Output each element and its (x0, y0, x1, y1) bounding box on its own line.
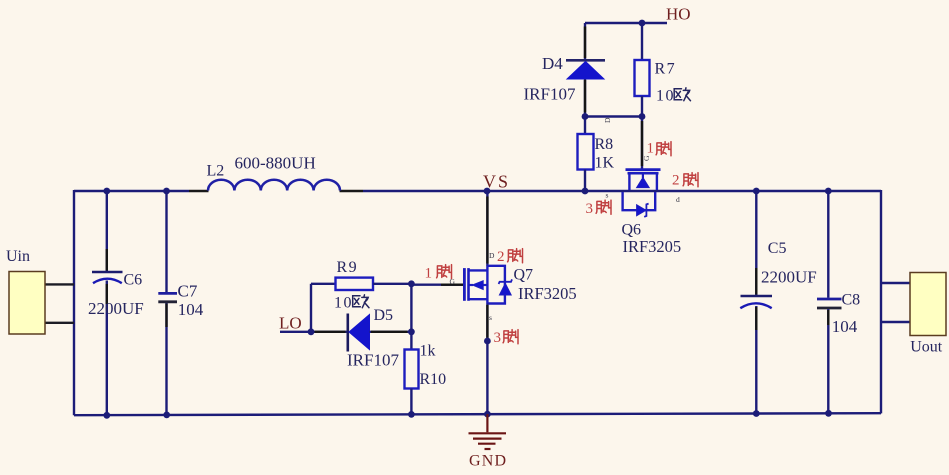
wire bottom rail (74, 413, 881, 415)
svg-text:IRF3205: IRF3205 (623, 237, 682, 256)
junction dots right rail (753, 188, 760, 195)
transistor Q7 (464, 266, 512, 304)
svg-text:Q6: Q6 (622, 222, 642, 239)
svg-text:IRF107: IRF107 (524, 85, 576, 104)
junction dot top rail at C7 (163, 188, 170, 195)
capacitor C8 (817, 190, 842, 414)
junction dot HO wire at R7 (639, 20, 646, 27)
svg-text:G: G (450, 277, 456, 286)
svg-text:2: 2 (672, 173, 680, 189)
svg-text:C7: C7 (178, 281, 198, 300)
diode D4 (566, 60, 605, 116)
svg-text:R9: R9 (337, 259, 359, 276)
wire left vertical (Uin branch) (73, 190, 75, 415)
svg-text:600-880UH: 600-880UH (235, 154, 316, 173)
svg-text:LO: LO (279, 314, 302, 333)
svg-text:Q7: Q7 (514, 266, 534, 283)
svg-text:1k: 1k (420, 343, 436, 360)
wire D4/R7 bottom link (585, 115, 642, 117)
transistor Q6 (623, 170, 661, 217)
svg-text:1K: 1K (595, 155, 615, 172)
wire Uout lower lead (881, 321, 910, 323)
wire top rail right segment (340, 190, 364, 192)
wire Uout upper lead (881, 282, 910, 284)
junction dot bottom rail at C6 (103, 412, 110, 419)
label pin 3脚 (Q6) (586, 200, 612, 217)
label pin 2脚 (Q6) (672, 173, 698, 189)
resistor R8 (578, 117, 594, 192)
junction dot Q7 source pin (484, 338, 491, 345)
svg-text:L2: L2 (207, 163, 225, 180)
wire HO top (585, 22, 667, 24)
junction dots bottom rail right (753, 410, 760, 417)
svg-text:R8: R8 (595, 136, 614, 153)
svg-text:104: 104 (832, 317, 858, 336)
capacitor C7 (158, 190, 177, 415)
svg-text:IRF107: IRF107 (347, 350, 399, 369)
wire Q7 gate lead (411, 284, 463, 286)
junction dot bottom rail at C7 (163, 412, 170, 419)
junction dot gate node (408, 280, 415, 287)
label pin 1脚 (Q7) (425, 265, 452, 282)
svg-text:2200UF: 2200UF (88, 299, 144, 318)
junction dot R10 bottom (408, 411, 415, 418)
capacitor C6 (92, 190, 123, 415)
connector Uin (port box) (9, 272, 45, 335)
svg-text:10: 10 (334, 295, 353, 312)
wire right vertical (Uout branch) (880, 190, 882, 413)
wire Q6 gate lead (641, 117, 643, 169)
svg-text:IRF3205: IRF3205 (518, 284, 577, 303)
resistor R7 (635, 23, 650, 117)
svg-text:Uout: Uout (910, 339, 943, 356)
label pin 3脚 (Q7) (494, 330, 519, 346)
junction dot at D4 bottom (582, 113, 589, 120)
value 10欧 (R7) (656, 88, 691, 105)
wire Uin lower lead (45, 322, 74, 324)
wire top rail left segment (74, 190, 189, 192)
wire gate node vertical (410, 284, 412, 350)
svg-text:Uin: Uin (6, 248, 30, 265)
svg-text:2: 2 (497, 249, 505, 265)
svg-text:D4: D4 (542, 54, 563, 73)
wire D4 top lead (584, 23, 586, 59)
junction dot top rail at C6 (103, 188, 110, 195)
svg-text:HO: HO (666, 5, 691, 24)
junction dot GND node (484, 411, 491, 418)
label pin 2脚 (Q7) (497, 249, 523, 265)
svg-text:3: 3 (586, 201, 594, 217)
junction dot R8 bottom on rail (582, 188, 589, 195)
wire LO lead (280, 331, 348, 333)
resistor R9 (311, 278, 411, 290)
svg-text:3: 3 (494, 330, 502, 346)
svg-text:d: d (676, 195, 680, 204)
resistor R10 (405, 350, 419, 415)
svg-text:s: s (489, 313, 492, 322)
junction dot at R7 bottom (639, 113, 646, 120)
svg-text:10: 10 (656, 88, 675, 105)
svg-text:2200UF: 2200UF (761, 268, 817, 287)
capacitor C5 (740, 190, 772, 414)
svg-text:C6: C6 (124, 272, 143, 289)
wire R9 left branch (310, 284, 312, 332)
ground symbol (469, 414, 507, 449)
wire Q7 drain lead (486, 191, 488, 266)
diode D5 (348, 314, 412, 352)
svg-text:C8: C8 (842, 292, 861, 309)
svg-text:104: 104 (178, 300, 204, 319)
svg-text:D: D (489, 251, 495, 260)
svg-text:1: 1 (647, 141, 655, 157)
svg-text:R10: R10 (420, 371, 447, 388)
svg-text:1: 1 (425, 266, 433, 282)
svg-text:R7: R7 (655, 61, 677, 78)
wire Q7 source lead (486, 304, 488, 415)
inductor L2 (208, 180, 340, 191)
junction dot LO branch (308, 328, 315, 335)
wire Uin upper lead (45, 283, 74, 285)
junction dot D5 anode (408, 328, 415, 335)
value 10欧 (R9) (334, 295, 369, 312)
svg-text:s: s (606, 191, 609, 200)
label pin 1脚 (Q6) (647, 141, 672, 157)
svg-text:C5: C5 (768, 240, 787, 257)
junction dot VS node (484, 188, 491, 195)
svg-text:D: D (603, 117, 612, 123)
svg-text:D5: D5 (374, 307, 394, 324)
connector Uout (port box) (910, 273, 946, 336)
svg-text:GND: GND (469, 453, 507, 470)
